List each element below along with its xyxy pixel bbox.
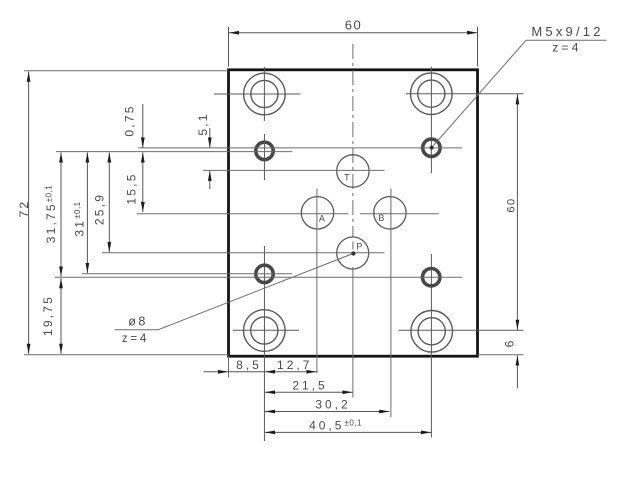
svg-text:B: B	[378, 213, 384, 223]
dimension 31 (left)	[73, 152, 88, 273]
port B	[360, 189, 439, 418]
mounting hole TR	[406, 67, 524, 173]
svg-text:31,75±0,1: 31,75±0,1	[44, 185, 58, 244]
thread hole UR (M5)	[423, 139, 440, 156]
svg-text:A: A	[319, 213, 325, 223]
svg-text:72: 72	[17, 200, 31, 218]
svg-text:M5x9/12: M5x9/12	[531, 24, 603, 39]
leader &#248;8 z=4	[115, 251, 356, 344]
thread hole LR (M5)	[423, 269, 440, 286]
port A	[137, 189, 348, 374]
dimension 6 (bottom right, outside arrow below)	[478, 340, 524, 388]
extension line below plate left edge	[228, 356, 230, 378]
thread hole LL (M5)	[256, 265, 273, 282]
mounting hole BL	[233, 246, 299, 441]
extension line through LR thread hole	[55, 276, 462, 278]
svg-text:15,5: 15,5	[124, 172, 138, 204]
svg-text:z=4: z=4	[122, 333, 149, 345]
extension line through LL thread hole	[82, 273, 292, 275]
mounting hole BR	[399, 254, 524, 438]
svg-text:21,5: 21,5	[292, 378, 327, 392]
vertical centerline (dash-dot)	[352, 44, 354, 237]
svg-text:40,5±0,1: 40,5±0,1	[309, 419, 362, 433]
port P	[102, 237, 385, 398]
mounting hole TL	[214, 67, 301, 121]
dimension 19,75 (left)	[41, 278, 61, 354]
svg-text:30,2: 30,2	[315, 398, 350, 412]
dimension 5,1 (outside arrows)	[196, 112, 210, 189]
svg-text:P: P	[356, 242, 362, 252]
svg-text:5,1: 5,1	[196, 112, 210, 135]
svg-text:T: T	[344, 173, 350, 183]
dimension 25,9 (left)	[92, 152, 109, 252]
leader M5x9/12 z=4	[430, 24, 607, 149]
extension line through UL thread hole	[56, 151, 292, 153]
svg-text:6: 6	[503, 340, 517, 347]
dimension 31,75 (left)	[44, 152, 61, 276]
dimension 60 (right)	[505, 94, 517, 330]
port T	[203, 155, 385, 187]
svg-text:z=4: z=4	[552, 41, 581, 55]
dimension 0,75 (left, outside arrow above)	[123, 104, 143, 148]
plate outline	[229, 70, 478, 356]
svg-text:12,7: 12,7	[277, 358, 312, 372]
svg-text:ø8: ø8	[128, 315, 148, 329]
svg-text:60: 60	[345, 17, 362, 32]
dimension 15,5 (left)	[124, 152, 143, 212]
dimension 12,7 (bottom row1)	[265, 358, 317, 372]
thread hole UL (M5)	[256, 134, 273, 180]
svg-text:60: 60	[505, 197, 517, 212]
dimension 8,5 (bottom row1, outside arrows)	[204, 358, 265, 372]
svg-text:8,5: 8,5	[236, 358, 262, 372]
extension line through UR thread hole (0,75 upper datum)	[138, 147, 462, 149]
dimension 60 (top)	[229, 17, 478, 66]
svg-text:31±0,1: 31±0,1	[73, 201, 87, 236]
svg-text:25,9: 25,9	[92, 193, 106, 225]
dimension 72 (left)	[17, 71, 229, 355]
dimension 21,5 (bottom row2)	[265, 378, 353, 392]
dimension 30,2 (bottom row3)	[265, 398, 390, 412]
svg-text:0,75: 0,75	[123, 104, 137, 136]
dimension 40,5 (bottom row4)	[265, 419, 431, 433]
svg-text:19,75: 19,75	[41, 295, 55, 336]
